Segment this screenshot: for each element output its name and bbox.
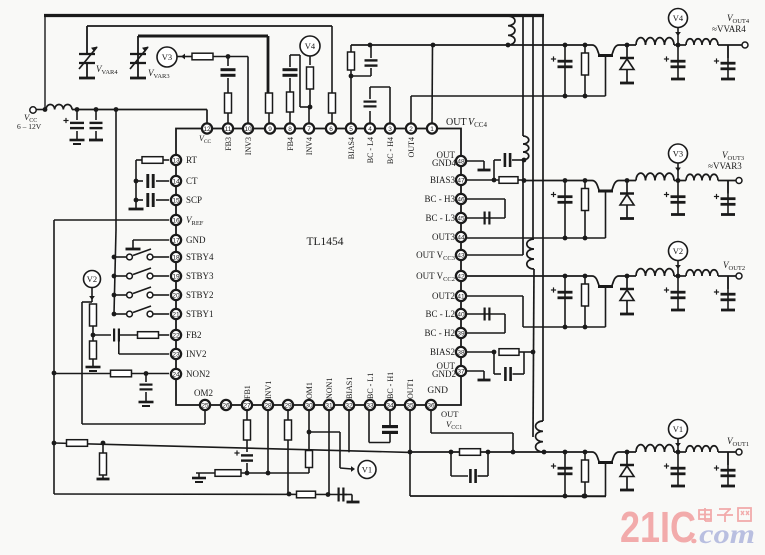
svg-text:BC - H2: BC - H2 — [424, 328, 455, 338]
svg-text:STBY4: STBY4 — [186, 252, 214, 262]
svg-text:BC - H1: BC - H1 — [386, 372, 395, 399]
svg-text:VREF: VREF — [186, 215, 204, 227]
svg-text:30: 30 — [305, 402, 313, 409]
svg-text:STBY3: STBY3 — [186, 271, 214, 281]
svg-text:V2: V2 — [673, 246, 683, 256]
svg-text:V3: V3 — [673, 149, 683, 159]
svg-text:39: 39 — [457, 330, 465, 337]
svg-text:OUT3: OUT3 — [432, 232, 455, 242]
svg-text:13: 13 — [172, 157, 180, 164]
svg-text:BC - L4: BC - L4 — [366, 137, 375, 163]
svg-text:24: 24 — [172, 371, 180, 378]
svg-text:11: 11 — [225, 126, 232, 133]
svg-text:17: 17 — [172, 237, 180, 244]
svg-text:INV3: INV3 — [244, 137, 253, 155]
svg-text:STBY1: STBY1 — [186, 309, 214, 319]
svg-text:3: 3 — [388, 126, 392, 133]
svg-text:BC - L2: BC - L2 — [425, 309, 455, 319]
svg-text:BC - H4: BC - H4 — [386, 137, 395, 164]
svg-text:BC - L3: BC - L3 — [425, 213, 455, 223]
svg-text:BC - L1: BC - L1 — [366, 373, 375, 399]
svg-text:STBY2: STBY2 — [186, 290, 214, 300]
svg-text:VCC1: VCC1 — [446, 419, 462, 431]
svg-text:OUT: OUT — [446, 117, 467, 128]
svg-text:22: 22 — [172, 332, 180, 339]
svg-text:BIAS1: BIAS1 — [345, 377, 354, 399]
svg-text:32: 32 — [345, 402, 353, 409]
svg-text:45: 45 — [457, 215, 465, 222]
svg-text:2: 2 — [409, 126, 413, 133]
svg-text:VOUT2: VOUT2 — [723, 260, 745, 272]
svg-text:OUT: OUT — [441, 409, 459, 419]
svg-text:14: 14 — [172, 178, 180, 185]
svg-text:41: 41 — [457, 293, 465, 300]
svg-text:FB2: FB2 — [186, 330, 202, 340]
svg-text:VVAR4: VVAR4 — [96, 64, 118, 76]
svg-text:35: 35 — [406, 402, 414, 409]
svg-text:GND2: GND2 — [432, 369, 456, 379]
svg-text:33: 33 — [366, 402, 374, 409]
svg-text:8: 8 — [288, 126, 292, 133]
svg-text:VCC: VCC — [199, 134, 212, 145]
svg-text:OUT VCC2: OUT VCC2 — [416, 271, 455, 283]
svg-text:V4: V4 — [673, 13, 684, 23]
svg-text:V1: V1 — [362, 465, 372, 475]
svg-text:V3: V3 — [162, 52, 172, 62]
svg-text:36: 36 — [427, 402, 435, 409]
svg-text:16: 16 — [172, 217, 180, 224]
svg-text:4: 4 — [368, 126, 372, 133]
svg-text:≈VVAR4: ≈VVAR4 — [712, 24, 746, 34]
svg-text:OM2: OM2 — [194, 388, 213, 398]
svg-text:10: 10 — [244, 126, 252, 133]
svg-text:V1: V1 — [673, 424, 683, 434]
svg-text:27: 27 — [243, 402, 251, 409]
svg-text:GND: GND — [186, 235, 206, 245]
svg-text:OUT2: OUT2 — [432, 291, 455, 301]
svg-text:RT: RT — [186, 155, 197, 165]
svg-text:VCC4: VCC4 — [468, 117, 487, 129]
svg-text:V4: V4 — [305, 41, 316, 51]
svg-text:GND: GND — [427, 386, 448, 396]
svg-text:.com: .com — [691, 519, 755, 549]
svg-text:OUT VCC3: OUT VCC3 — [416, 250, 455, 262]
svg-text:OUT4: OUT4 — [407, 137, 416, 157]
svg-text:OM1: OM1 — [305, 382, 314, 399]
svg-text:18: 18 — [172, 254, 180, 261]
svg-text:23: 23 — [172, 351, 180, 358]
svg-text:VOUT1: VOUT1 — [727, 436, 749, 448]
svg-text:12: 12 — [203, 126, 211, 133]
svg-text:VVAR3: VVAR3 — [148, 68, 170, 80]
svg-text:TL1454: TL1454 — [306, 236, 343, 248]
svg-text:GND4: GND4 — [432, 158, 456, 168]
svg-text:BIAS4: BIAS4 — [347, 137, 356, 159]
svg-text:INV1: INV1 — [264, 381, 273, 399]
svg-text:42: 42 — [457, 273, 465, 280]
svg-text:SCP: SCP — [186, 195, 202, 205]
svg-text:9: 9 — [268, 126, 272, 133]
svg-text:20: 20 — [172, 292, 180, 299]
svg-text:21IC: 21IC — [620, 503, 696, 552]
svg-text:BIAS2: BIAS2 — [430, 347, 455, 357]
svg-text:FB4: FB4 — [286, 137, 295, 151]
svg-text:15: 15 — [172, 197, 180, 204]
svg-text:48: 48 — [457, 158, 465, 165]
svg-text:44: 44 — [457, 234, 465, 241]
svg-text:INV2: INV2 — [186, 349, 207, 359]
svg-text:6 – 12V: 6 – 12V — [17, 122, 42, 131]
svg-text:7: 7 — [307, 126, 311, 133]
svg-text:INV4: INV4 — [305, 137, 314, 155]
svg-text:38: 38 — [457, 349, 465, 356]
svg-text:46: 46 — [457, 196, 465, 203]
svg-text:1: 1 — [430, 126, 434, 133]
svg-text:≈VVAR3: ≈VVAR3 — [708, 161, 742, 171]
svg-text:34: 34 — [386, 402, 394, 409]
svg-text:OUT1: OUT1 — [406, 379, 415, 399]
svg-text:37: 37 — [457, 368, 465, 375]
svg-text:26: 26 — [222, 402, 230, 409]
svg-text:31: 31 — [325, 402, 333, 409]
svg-text:19: 19 — [172, 273, 180, 280]
svg-text:FB1: FB1 — [243, 385, 252, 399]
svg-text:6: 6 — [329, 126, 333, 133]
svg-text:V2: V2 — [87, 274, 97, 284]
svg-text:BC - H3: BC - H3 — [424, 194, 455, 204]
svg-text:29: 29 — [284, 402, 292, 409]
svg-text:47: 47 — [457, 177, 465, 184]
svg-text:NON1: NON1 — [325, 378, 334, 399]
svg-text:CT: CT — [186, 176, 198, 186]
svg-text:28: 28 — [264, 402, 272, 409]
svg-text:25: 25 — [201, 402, 209, 409]
svg-text:FB3: FB3 — [224, 137, 233, 151]
svg-text:40: 40 — [457, 311, 465, 318]
svg-text:21: 21 — [172, 311, 180, 318]
svg-text:5: 5 — [349, 126, 353, 133]
svg-text:NON2: NON2 — [186, 369, 210, 379]
svg-text:BIAS3: BIAS3 — [430, 175, 456, 185]
svg-text:43: 43 — [457, 252, 465, 259]
